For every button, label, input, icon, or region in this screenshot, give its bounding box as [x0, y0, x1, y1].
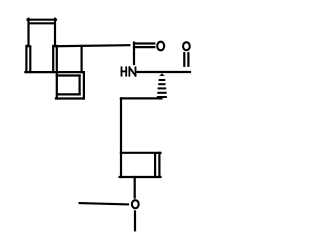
ring A left edge upper: [27, 19, 29, 47]
atom label H of HN: [122, 67, 127, 75]
atom O1 (carbamate oxygen): [157, 42, 164, 51]
ring C inner right edge: [78, 76, 80, 95]
fused rings bottom long edge: [25, 71, 83, 73]
ring D top edge: [121, 152, 161, 154]
hashed wedge bond at stereocenter: [158, 73, 166, 97]
carbonyl C=O upper line: [134, 42, 154, 44]
aldehyde C=O double bond line b: [187, 53, 189, 66]
ring C top edge: [57, 74, 80, 76]
side-chain bond stereocenter to CH2: [121, 97, 162, 99]
bond ring D to oxygen: [134, 177, 136, 198]
bond oxygen to lower methyl: [134, 211, 136, 230]
atom label N of HN: [129, 67, 135, 75]
bond from ring system to carbonyl carbon: [55, 45, 129, 46]
bond N to stereocenter to aldehyde carbon: [138, 71, 190, 73]
ring D bottom edge: [120, 176, 161, 178]
ring B right edge: [80, 46, 82, 72]
carbonyl C-N stem: [133, 43, 135, 64]
ring D right edge: [158, 153, 160, 177]
atom O3 (methoxy oxygen): [132, 200, 139, 208]
carbonyl C=O lower line: [134, 46, 154, 48]
ring A right edge upper: [54, 19, 56, 46]
ring A right lower double-bond line a: [52, 46, 54, 72]
aldehyde C=O double bond line a: [183, 53, 185, 66]
ring D inner double-bond line: [154, 154, 156, 175]
ring A top edge: [28, 19, 57, 21]
ring C outer right edge: [83, 72, 85, 98]
ring A left lower double-bond outer line: [25, 46, 27, 72]
ring A top inner double-bond line: [30, 22, 55, 24]
ring A right lower double-bond line b / ring C left edge: [56, 46, 58, 99]
atom O2 (aldehyde oxygen): [183, 42, 190, 50]
bond oxygen to left methyl: [80, 203, 128, 204]
ring C outer bottom edge: [56, 97, 84, 99]
side-chain vertical CH2-CH2 bond: [120, 98, 122, 177]
ring C inner bottom edge: [58, 93, 80, 95]
ring A left lower double-bond inner line: [29, 46, 31, 72]
